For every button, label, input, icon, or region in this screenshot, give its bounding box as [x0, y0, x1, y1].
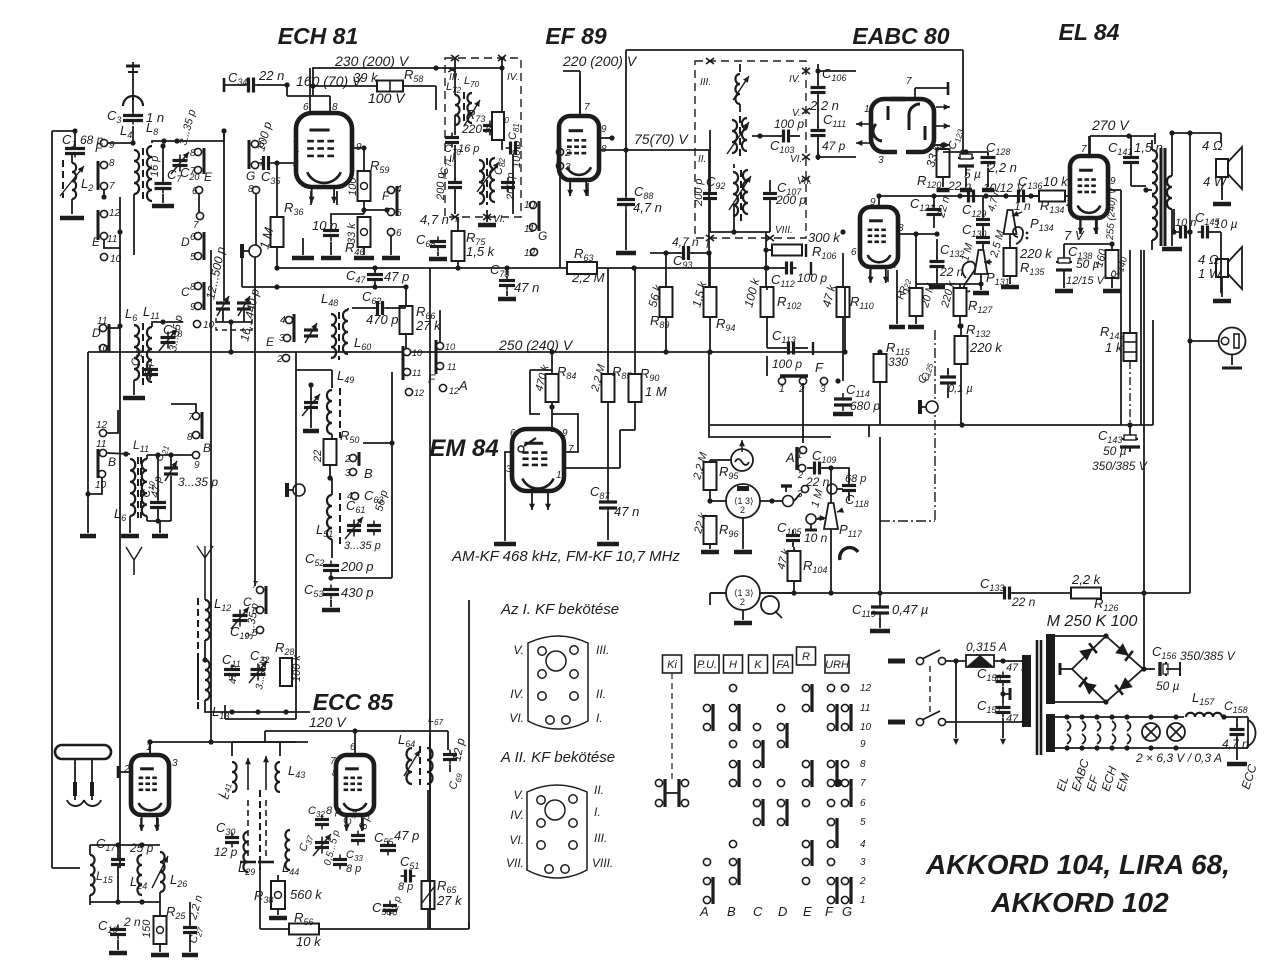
capacitor C1	[62, 132, 104, 158]
svg-text:220 k: 220 k	[969, 340, 1003, 355]
wire C158	[1227, 717, 1247, 764]
cap C68 4.7n	[416, 212, 449, 252]
tube EL84	[1070, 156, 1108, 234]
cap C119 0.47u	[852, 601, 928, 619]
pin 9 wire	[352, 145, 367, 150]
chassis mic symbol	[242, 244, 261, 258]
label 270V	[1091, 117, 1130, 133]
svg-text:3⟩: 3⟩	[745, 588, 754, 598]
svg-text:A: A	[458, 378, 468, 393]
wire x869 borders	[868, 425, 870, 437]
wire mains1	[946, 658, 966, 663]
wire C143	[1129, 425, 1131, 452]
wire D to L6	[107, 327, 120, 329]
svg-text:2 n: 2 n	[123, 915, 141, 929]
svg-text:8: 8	[860, 759, 866, 770]
pin 9 wire tri	[876, 193, 881, 207]
wire C129-130	[982, 196, 984, 252]
breath arc	[840, 548, 858, 560]
pin 7 EL84	[1081, 136, 1089, 156]
wire top speakers	[1172, 130, 1221, 135]
heater rail bottom	[1055, 745, 1248, 750]
wire L157 out	[1221, 714, 1248, 719]
cap C61 trim	[344, 498, 381, 552]
cap C112 100p	[771, 262, 827, 290]
wire L13 bottom	[205, 700, 310, 715]
resistor R122 20M	[894, 277, 937, 316]
svg-text:Ki: Ki	[667, 659, 677, 671]
resistor R95 2.2M	[691, 450, 739, 490]
svg-text:6: 6	[396, 228, 402, 239]
svg-text:0,1 µ: 0,1 µ	[948, 383, 973, 395]
button URH	[825, 655, 849, 673]
coil L26	[152, 852, 187, 892]
cap C34 22n	[224, 68, 284, 93]
contacts B	[729, 684, 739, 885]
cap C17 25p	[96, 836, 154, 870]
socket KF1	[509, 636, 609, 729]
wire EM84 left	[505, 452, 512, 530]
heater hook EF	[1097, 721, 1101, 744]
svg-text:22 n: 22 n	[939, 265, 964, 279]
bottom border	[468, 922, 470, 929]
ground C16	[109, 940, 127, 953]
svg-text:VIII.: VIII.	[775, 225, 793, 236]
heater label EM	[1114, 771, 1133, 792]
resistor R73 220k	[461, 107, 504, 140]
button FA	[774, 655, 793, 673]
cap C111 47p	[811, 112, 847, 153]
wire R142	[1127, 250, 1132, 428]
svg-text:1 M: 1 M	[645, 384, 667, 399]
svg-text:5: 5	[252, 628, 258, 639]
svg-text:1: 1	[797, 450, 802, 460]
wire jack gnd	[1222, 355, 1242, 368]
resistor R102 100k	[741, 276, 801, 317]
svg-text:22: 22	[312, 450, 324, 463]
transformer heater bar	[1046, 714, 1055, 752]
cap C114 680p	[834, 382, 880, 413]
resistor R25 150	[141, 904, 186, 944]
svg-text:B: B	[203, 441, 211, 455]
pot P131 1M	[959, 241, 1009, 287]
wire C21	[170, 455, 172, 521]
label 16...440p	[237, 287, 262, 342]
button H	[724, 655, 743, 673]
contact 12 G	[524, 248, 538, 259]
wire L12 area	[202, 640, 207, 663]
label ECC 85	[313, 689, 395, 715]
svg-text:VII.: VII.	[506, 856, 524, 870]
svg-text:10: 10	[95, 480, 107, 491]
bridge diode 1	[1079, 643, 1097, 661]
wire R63	[597, 265, 770, 270]
svg-text:II.: II.	[594, 783, 604, 797]
ground socket2	[734, 610, 752, 623]
wire C125	[947, 368, 949, 398]
coil L24	[130, 855, 147, 895]
wire C34 to junction	[257, 82, 290, 87]
grounds EABC	[937, 176, 995, 190]
cap C141 1.5n	[1108, 140, 1163, 168]
svg-text:8: 8	[332, 768, 338, 779]
wire R106	[763, 247, 772, 252]
svg-text:350/385 V: 350/385 V	[1180, 649, 1236, 663]
contact pair D2 11-10	[92, 316, 109, 355]
svg-text:ECH 81: ECH 81	[278, 23, 359, 49]
svg-text:11: 11	[107, 234, 117, 245]
svg-text:8 p: 8 p	[346, 863, 361, 875]
svg-text:M 250 K 100: M 250 K 100	[1047, 613, 1138, 630]
vert x880	[879, 437, 881, 593]
wire pin8 tri	[897, 231, 940, 287]
cathode ECC85R	[346, 818, 363, 830]
transformer L48-L60	[331, 310, 371, 360]
contact A 1-2	[785, 446, 807, 480]
wire EM84 pin7 box	[552, 414, 578, 452]
svg-text:22 n: 22 n	[1011, 595, 1036, 609]
svg-text:III.: III.	[594, 831, 607, 845]
speaker 1W	[1198, 247, 1242, 289]
tube EABC triode	[860, 207, 898, 283]
svg-text:350/385 V: 350/385 V	[1092, 459, 1148, 473]
svg-text:B: B	[364, 466, 373, 481]
coil L13	[198, 658, 229, 721]
label ECC rot	[1239, 762, 1260, 791]
coil L64	[398, 732, 420, 785]
cap C113 100p	[772, 328, 813, 371]
tube ECH81 cathode wires	[311, 191, 337, 205]
wire R104	[793, 547, 795, 593]
cap C133 22n	[980, 576, 1036, 609]
wire R115	[877, 349, 882, 425]
cap C35 100p	[253, 120, 281, 186]
wire AVC bus top	[177, 128, 227, 141]
wire 250V up right	[844, 287, 846, 352]
cap C62 470p	[362, 289, 399, 327]
wire L11 top	[152, 319, 183, 327]
Ki dashed stem	[671, 673, 673, 780]
svg-text:150: 150	[141, 919, 153, 938]
cap C124 22n	[947, 179, 979, 203]
contact pair G 6-7	[246, 139, 265, 183]
cap C123 5u	[946, 127, 981, 181]
svg-text:I.: I.	[594, 805, 601, 819]
wire EF89 220V stub	[563, 71, 580, 115]
wire 100V line	[435, 86, 437, 110]
svg-text:I.: I.	[596, 711, 603, 725]
svg-text:200 p: 200 p	[340, 559, 374, 574]
svg-text:G: G	[842, 904, 852, 919]
cap C129	[962, 188, 1003, 229]
svg-text:6: 6	[192, 186, 198, 197]
coil L12	[198, 596, 231, 700]
cathode EM84	[529, 493, 551, 510]
contact E3-2 mid	[266, 314, 294, 365]
wire R56	[260, 857, 469, 929]
label L4	[120, 123, 132, 140]
svg-text:2: 2	[123, 764, 130, 775]
marker IV box1	[507, 72, 518, 83]
svg-text:10: 10	[860, 722, 872, 733]
wire C78	[498, 265, 516, 299]
wire pickup	[710, 459, 724, 461]
svg-text:2: 2	[276, 354, 283, 365]
svg-text:Az I. KF bekötése: Az I. KF bekötése	[500, 601, 619, 618]
svg-text:2: 2	[798, 384, 805, 395]
label L48	[321, 291, 338, 308]
wire L2	[71, 155, 73, 214]
pin labels EM84	[506, 428, 574, 481]
coil L43	[275, 762, 305, 792]
fuse 0.315A	[966, 640, 1007, 667]
wire R59	[361, 148, 366, 214]
wire B to x392	[363, 442, 392, 444]
svg-text:D: D	[778, 904, 787, 919]
button Ki	[663, 655, 682, 673]
svg-text:E: E	[204, 170, 213, 184]
svg-text:9: 9	[860, 739, 866, 750]
contact 5b	[252, 626, 264, 639]
svg-text:100 p: 100 p	[774, 117, 804, 131]
svg-text:10 k: 10 k	[1043, 174, 1069, 189]
svg-text:100 p: 100 p	[772, 357, 802, 371]
wire spk1 gnd	[1213, 177, 1231, 204]
svg-text:3⟩: 3⟩	[745, 496, 754, 506]
svg-text:7: 7	[1081, 144, 1087, 155]
svg-text:47 n: 47 n	[614, 504, 639, 519]
cap C55 47p	[374, 828, 419, 856]
arrow down C151	[1000, 718, 1006, 745]
label EF 89	[545, 23, 607, 49]
wire R94	[707, 253, 712, 355]
wire L8 top	[152, 138, 180, 143]
svg-text:8: 8	[109, 158, 115, 169]
svg-text:4 Ω: 4 Ω	[1202, 138, 1223, 153]
svg-text:6: 6	[252, 606, 258, 617]
cap C92 200p	[693, 174, 725, 207]
wire R90	[620, 268, 635, 430]
label 250V	[498, 337, 574, 353]
contact pair 12-11	[98, 208, 121, 245]
wire C27	[182, 902, 198, 955]
svg-text:10 µ: 10 µ	[1214, 217, 1238, 231]
svg-text:III.: III.	[596, 643, 609, 657]
resistor R38 560k	[254, 881, 323, 909]
headphone jack	[1187, 328, 1245, 355]
wire C47	[372, 265, 377, 287]
wire R140	[1103, 244, 1121, 291]
contact pair B 11-10	[95, 439, 116, 491]
Q symbol	[761, 596, 782, 618]
heater hook EM	[1127, 721, 1131, 744]
coil L72	[446, 81, 462, 125]
svg-text:230 (200) V: 230 (200) V	[334, 53, 410, 69]
trim cap L48	[304, 323, 318, 343]
vert x1144	[1143, 425, 1145, 669]
contact 3 af	[794, 485, 809, 501]
pot P134 2.5M	[988, 210, 1054, 260]
svg-text:10: 10	[412, 348, 422, 358]
pilot lamp 2	[1167, 723, 1185, 741]
svg-text:16 p: 16 p	[458, 143, 479, 155]
svg-text:12: 12	[414, 388, 424, 398]
pin9 wire EF89	[599, 135, 615, 140]
cap C87 47n	[590, 484, 639, 519]
svg-text:75(70) V: 75(70) V	[634, 131, 689, 147]
svg-text:4 Ω: 4 Ω	[1198, 252, 1219, 267]
vert x212	[210, 250, 212, 742]
wire R110	[840, 229, 845, 381]
svg-text:8 p: 8 p	[326, 805, 341, 817]
cap C11 47p	[222, 652, 241, 684]
svg-text:2: 2	[740, 597, 745, 607]
coil L157	[1186, 690, 1222, 717]
dash-dot volume link	[880, 330, 935, 521]
cap C145 10u	[1195, 210, 1238, 239]
svg-text:4: 4	[347, 491, 353, 502]
wire top IF1	[436, 67, 502, 69]
bridge rectifier frame	[1072, 636, 1143, 702]
wire 250V bus	[88, 349, 848, 354]
cap C156 50u	[1152, 644, 1236, 693]
svg-text:5: 5	[860, 817, 866, 828]
tick IF1 I	[451, 214, 459, 220]
resistor R115 330	[874, 340, 911, 382]
tick IF1 VI	[483, 214, 491, 220]
wire bottom bus ECH	[277, 267, 430, 269]
resistor R106 300k	[772, 230, 841, 261]
resistor R75 1.5k	[452, 230, 496, 261]
ground R122	[889, 270, 924, 327]
svg-text:5: 5	[190, 252, 196, 263]
wire L15 bot	[90, 899, 160, 904]
marker VIII RD	[775, 225, 793, 236]
coil L2	[60, 160, 93, 199]
svg-text:100: 100	[347, 177, 359, 196]
svg-text:12: 12	[96, 420, 108, 431]
wire F9 to L4	[108, 142, 133, 144]
svg-text:F: F	[382, 189, 390, 203]
resistor R65 27k	[422, 790, 464, 929]
svg-text:0,315 A: 0,315 A	[966, 640, 1007, 654]
transformer L4-L8	[134, 120, 158, 201]
wire R89	[665, 253, 667, 352]
wire L51	[331, 478, 333, 558]
cap C19 trim	[230, 602, 261, 641]
wire P131	[973, 274, 989, 293]
cap C16 2n	[98, 915, 141, 940]
wire R94 vert	[706, 150, 711, 287]
wire C7	[160, 143, 165, 181]
dashed box RD	[695, 61, 806, 238]
wire HV bot	[1055, 699, 1109, 704]
coil L49b	[327, 388, 340, 438]
pin 6 ECH81	[303, 68, 310, 113]
contacts E	[802, 684, 812, 885]
contact F 1-2-3	[778, 360, 840, 395]
svg-text:EM 84: EM 84	[429, 435, 498, 462]
cap C63 56p	[347, 488, 390, 536]
chassis circle mid	[287, 483, 305, 497]
wire 270V to primary	[1154, 133, 1156, 144]
cathode wires EF89	[570, 183, 588, 196]
svg-text:7: 7	[188, 412, 194, 423]
svg-text:3: 3	[506, 464, 512, 475]
tube EABC80 diodes	[871, 99, 934, 152]
cap C138 50u	[1056, 244, 1106, 287]
trim cap FM osc	[302, 385, 320, 431]
svg-text:9: 9	[601, 124, 607, 135]
wire bridge out	[1141, 666, 1155, 671]
svg-text:IV.: IV.	[789, 74, 800, 85]
wire C156	[1166, 662, 1180, 676]
tick RD VIII	[766, 235, 774, 241]
heater label EF	[1084, 773, 1102, 793]
wire y593 right	[880, 590, 1190, 595]
svg-text:2: 2	[740, 505, 745, 515]
ground C7	[152, 194, 174, 206]
dashed box IF1	[445, 58, 521, 217]
wire R66	[348, 284, 409, 354]
svg-text:9: 9	[109, 140, 115, 151]
wire y287 bus	[242, 258, 406, 290]
contacts A	[703, 704, 713, 904]
wire R132	[960, 326, 962, 425]
wire pin8 EF89	[599, 147, 709, 152]
resistor R84 470k	[533, 363, 576, 402]
svg-text:10: 10	[445, 342, 455, 352]
svg-text:2,2 n: 2,2 n	[809, 98, 839, 113]
svg-text:7: 7	[893, 260, 899, 271]
cap C33 8p	[333, 849, 363, 875]
cap C21 trim	[153, 443, 218, 489]
wire 11 to x120	[104, 240, 120, 248]
heater hook EABC	[1082, 721, 1086, 744]
diode socket 1	[726, 484, 760, 518]
svg-text:10 n: 10 n	[804, 531, 828, 545]
label EM 84	[429, 435, 498, 462]
svg-text:11: 11	[96, 439, 106, 450]
contact pair C 8-9	[181, 282, 204, 313]
tube ECH81	[296, 113, 352, 203]
tick RD I	[706, 235, 714, 241]
svg-text:3: 3	[556, 156, 562, 167]
cap C136 1n	[1014, 174, 1043, 213]
tap C150-151	[1000, 687, 1010, 703]
wire C93	[650, 250, 712, 255]
resistor R90 1M	[629, 366, 667, 402]
contact E6	[192, 186, 203, 197]
svg-text:4,7 n: 4,7 n	[420, 212, 449, 227]
resistor R59 100	[347, 158, 389, 201]
wire bottoms b	[147, 516, 171, 536]
svg-text:4 W: 4 W	[1203, 174, 1228, 189]
contact G8	[248, 184, 260, 195]
wire L41 top	[232, 742, 296, 756]
resistor R140 160	[1093, 247, 1129, 281]
wire R38	[269, 875, 287, 918]
svg-text:7: 7	[906, 76, 912, 87]
svg-text:AKKORD 104, LIRA 68,: AKKORD 104, LIRA 68,	[925, 849, 1230, 880]
contact pair 2-3	[556, 148, 571, 173]
svg-text:A: A	[785, 450, 795, 465]
wire AVC vertical	[223, 131, 225, 301]
svg-text:D: D	[92, 326, 101, 340]
box af top	[709, 425, 831, 437]
svg-text:12/15 V: 12/15 V	[1066, 275, 1106, 287]
svg-text:1 n: 1 n	[1014, 199, 1031, 213]
